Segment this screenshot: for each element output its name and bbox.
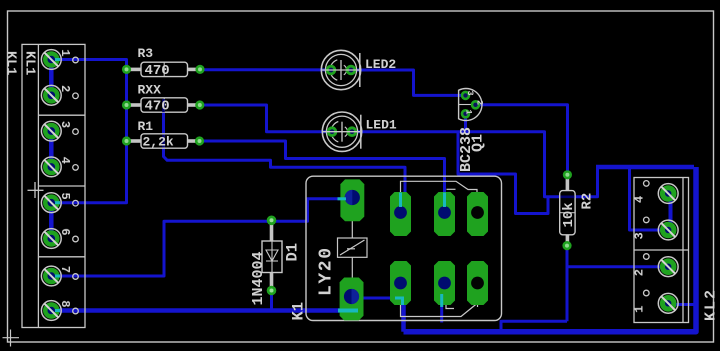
svg-text:KL1: KL1: [22, 51, 37, 75]
svg-text:R2: R2: [580, 193, 596, 210]
wire KL1 pad5-pad6 link: [49, 205, 54, 236]
pad KL1.4: [41, 157, 61, 177]
marker o pad6: [73, 236, 79, 242]
svg-text:R1: R1: [138, 119, 154, 134]
pad KL1.7: [41, 266, 61, 286]
pad R3.2: [195, 65, 204, 74]
wire R2.bottom to ground join: [501, 321, 567, 331]
relay coil symbol: [338, 219, 368, 279]
marker o KL2.1: [644, 290, 650, 296]
resistor R3 lead stubs: [128, 68, 199, 72]
marker o pad8: [73, 308, 79, 314]
LED2 center cross: [322, 60, 359, 80]
svg-text:D1: D1: [284, 243, 302, 262]
wire net RXX.right to LED1.left: [200, 105, 332, 132]
marker o pad3: [73, 129, 79, 135]
svg-text:3: 3: [633, 232, 647, 239]
pad K1 contact 3 bottom: [467, 261, 488, 305]
svg-text:1: 1: [464, 110, 474, 115]
pad LED2.K: [346, 65, 357, 76]
svg-text:5: 5: [58, 193, 72, 200]
svg-text:1: 1: [58, 49, 72, 56]
LED1 center cross: [323, 122, 360, 142]
wire hidden stub under RXX body: [164, 104, 189, 107]
pad KL2.3: [658, 220, 678, 240]
wire net N2: RXX vertical to relay pad1 top (supply): [164, 113, 406, 205]
pad KL1.3: [41, 121, 61, 141]
resistor R1 lead stubs: [128, 139, 199, 143]
marker o KL2.3: [644, 217, 650, 223]
svg-text:KL1: KL1: [3, 51, 18, 75]
wire relay pad1 bottom to ground bottom: [401, 304, 406, 332]
pad KL2.1: [658, 293, 678, 313]
svg-text:2,2k: 2,2k: [143, 135, 174, 150]
wire net R2.bottom vertical: [566, 246, 569, 322]
svg-text:2: 2: [633, 269, 647, 276]
LED2 outline circles: [321, 50, 360, 89]
marker o pad1: [73, 57, 79, 63]
svg-text:1N4004: 1N4004: [250, 251, 267, 305]
cyan stub contact1 top: [399, 193, 402, 208]
wire net KL1.7 - D1.top - relay coil A: [51, 199, 345, 276]
R2 body: [560, 191, 575, 235]
pad Q1.1: [461, 109, 471, 119]
pad K1 coil B: [340, 278, 364, 321]
pad KL1.5: [41, 193, 61, 213]
cyan stub contact2 top: [443, 193, 446, 208]
svg-text:8: 8: [58, 300, 72, 307]
resistor R1 body: [141, 134, 188, 148]
Q1 outline TO92: [459, 89, 482, 121]
pad KL1.8: [41, 301, 61, 321]
pad KL1.6: [41, 229, 61, 249]
wire east run to ground wrap (thicker): [596, 165, 694, 170]
pad R1.1: [122, 136, 131, 145]
wire KL1 pad3-pad4 link: [49, 134, 54, 164]
wire coil B to relay pad1 bottom: [358, 297, 395, 300]
pad R3.1: [122, 65, 131, 74]
svg-text:RXX: RXX: [138, 83, 162, 98]
svg-text:10k: 10k: [561, 202, 577, 227]
svg-text:KL2: KL2: [703, 288, 720, 321]
relay K1 outline box: [306, 176, 502, 320]
svg-text:LED2: LED2: [365, 57, 396, 72]
connector KL1 outline box: [22, 44, 85, 327]
wire net LED2.right to Q1.pad3: [351, 70, 466, 95]
marker o pad2: [73, 93, 79, 99]
D1 body: [262, 241, 282, 273]
wire net KL1.8 - D1.bottom - relay coil B (thick): [51, 308, 344, 313]
cyan stub contact2 bottom: [440, 294, 443, 307]
svg-text:LY20: LY20: [317, 246, 337, 296]
wire KL2.1 to ground wrap link: [676, 303, 694, 306]
origin cross marker: [3, 330, 20, 347]
svg-text:R3: R3: [138, 46, 154, 61]
pad Q1.3: [461, 91, 471, 101]
marker o pad7: [73, 274, 79, 280]
cyan stub coil A: [338, 197, 347, 200]
pad K1 coil A: [340, 179, 364, 221]
wire branch east run to KL2.3: [630, 168, 669, 230]
svg-text:6: 6: [58, 228, 72, 235]
R2 lead stubs: [566, 177, 570, 246]
marker o KL2.2: [644, 254, 650, 260]
cyan stub coil B: [338, 309, 358, 313]
svg-text:4: 4: [58, 157, 72, 164]
wire relay pad2 bottom stub: [440, 305, 443, 323]
pad K1 contact 2 top: [434, 192, 455, 236]
connector KL2 outline box: [634, 178, 689, 323]
svg-text:Q1: Q1: [470, 134, 487, 152]
marker o KL2.4: [644, 181, 650, 187]
wire ground wrap thick L: [404, 167, 697, 332]
resistor RXX body: [141, 98, 188, 112]
wire net R3.right to LED2.left: [200, 68, 331, 71]
resistor R3 body: [141, 62, 188, 76]
svg-text:4: 4: [633, 196, 647, 203]
pad LED1.A: [327, 126, 338, 137]
cyan stub contact1 bottom: [395, 298, 403, 305]
svg-text:470: 470: [145, 63, 170, 79]
pad K1 contact 1 top: [390, 192, 411, 236]
wire net N1: KL1.1 - R3.left - RXX.left - R1.left - KL1.5: [51, 60, 126, 203]
pad RXX.2: [195, 100, 204, 109]
svg-text:LED1: LED1: [366, 117, 397, 132]
wire net R1.right to relay pad2 top: [200, 141, 445, 206]
wire KL2.4 - KL2.3 link: [669, 197, 673, 227]
wire Q1.pad1 emitter drop: [464, 112, 467, 132]
marker o pad4: [73, 165, 79, 171]
svg-text:K1: K1: [290, 302, 308, 321]
wire D1.bottom drop: [270, 291, 273, 311]
relay internal silkscreen top: [401, 181, 478, 195]
wire net LED1.right - Q1 emitter - east run: [352, 132, 598, 197]
pad K1 contact 1 bottom: [390, 261, 411, 305]
svg-text:2: 2: [475, 100, 485, 105]
svg-text:3: 3: [465, 91, 475, 96]
svg-text:2: 2: [58, 85, 72, 92]
svg-text:470: 470: [145, 99, 170, 115]
D1 diode symbol: [266, 241, 278, 273]
pad RXX.1: [122, 100, 131, 109]
pad K1 contact 2 bottom: [434, 261, 455, 305]
wire net Q1.pad2 to R2.top: [476, 105, 568, 175]
wire branch R2.bottom to KL2.2: [567, 265, 668, 268]
pad KL1.1: [41, 50, 61, 70]
pad LED1.K: [347, 126, 358, 137]
pad D1.A: [267, 216, 277, 226]
pad R1.2: [195, 136, 204, 145]
pad LED2.A: [326, 65, 337, 76]
marker o pad5: [73, 200, 79, 206]
svg-text:3: 3: [58, 121, 72, 128]
pad D1.K: [267, 286, 277, 296]
resistor RXX lead stubs: [128, 103, 199, 107]
relay internal silkscreen bottom: [401, 302, 478, 317]
pad Q1.2: [471, 100, 481, 110]
pad K1 contact 3 top: [467, 192, 488, 236]
LED1 outline circles: [322, 112, 361, 151]
pad KL2.2: [658, 257, 678, 277]
svg-text:1: 1: [633, 306, 647, 313]
wire KL1 pad1-pad2 link: [49, 62, 54, 93]
pad R2.1: [563, 170, 572, 179]
svg-text:7: 7: [58, 266, 72, 273]
pad KL1.2: [41, 85, 61, 105]
pad KL2.4: [658, 184, 678, 204]
pad R2.2: [562, 241, 571, 250]
D1 lead stubs: [270, 222, 274, 289]
wire emitter net loop through relay top: [458, 132, 548, 214]
